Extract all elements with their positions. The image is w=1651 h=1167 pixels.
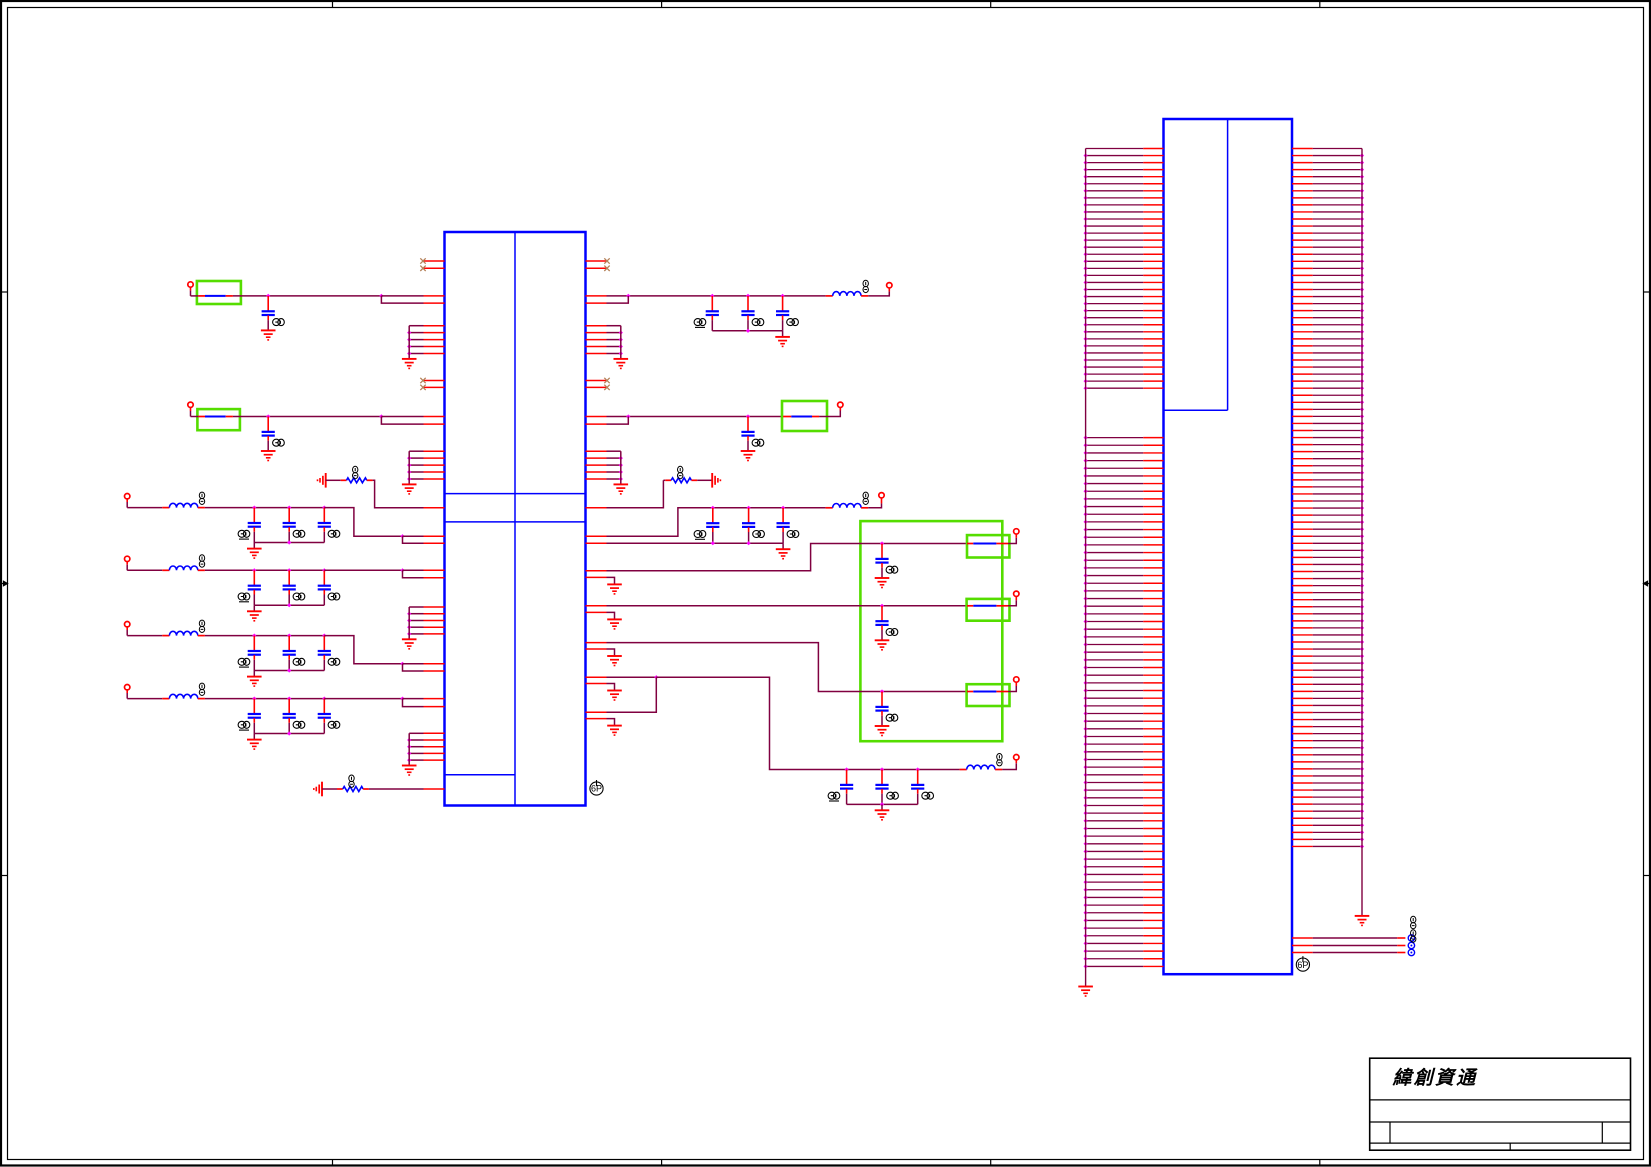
ground right pin bus <box>1355 916 1370 926</box>
connector J1 body <box>1164 119 1293 974</box>
capacitor C10 green row A <box>875 544 898 588</box>
svg-text:6P: 6P <box>1297 960 1308 970</box>
IC pin 712 right <box>586 711 607 713</box>
wire row y698.6 to caps <box>205 697 327 701</box>
connector J1 aux pins to test points <box>1292 938 1405 953</box>
capacitor bank row 507 right <box>694 508 799 559</box>
capacitor C11 green row B <box>875 606 898 650</box>
resistor R5 in green callout row B <box>967 599 1010 621</box>
IC pin gnd 612 right <box>586 612 622 629</box>
IC pin gnd 577 right <box>586 577 622 594</box>
wire green row A from IC <box>586 541 968 570</box>
wire row B to port <box>1008 597 1016 606</box>
wire row y698.6 to IC <box>324 697 423 707</box>
connector J1 left pins group 1 <box>1084 149 1164 391</box>
wire row y570.3 to IC <box>324 568 423 578</box>
resistor R6 in green callout row C <box>967 684 1010 706</box>
test point TP3 <box>1408 949 1414 955</box>
port P5 <box>887 283 892 288</box>
wire bottom right bus <box>845 767 960 771</box>
capacitor bank bottom right <box>828 770 933 820</box>
connector J1 right pins <box>1292 149 1364 849</box>
capacitor bank row y507.6 <box>238 508 340 558</box>
IC pins row y570.3 <box>424 570 445 577</box>
wire left pin bus <box>1085 149 1087 987</box>
wire bottom right row from IC <box>586 675 847 769</box>
wire row y635.6 to caps <box>205 634 327 638</box>
green function block callout <box>860 521 1002 741</box>
wire row2 left <box>191 414 424 424</box>
resistor R1 with AC ground <box>318 466 373 487</box>
wire R3 to IC pin <box>607 480 664 508</box>
port row y635.6 <box>125 622 130 636</box>
IC no-connect pins mid-left <box>420 378 444 390</box>
wire row 536 right <box>586 506 826 544</box>
svg-text:緯創資通: 緯創資通 <box>1392 1067 1479 1089</box>
connector J1 designator 6P <box>1296 956 1309 971</box>
inductor row y570.3 <box>127 555 205 571</box>
wire green row B from IC <box>586 604 968 608</box>
port P1 <box>188 282 193 296</box>
IC U1 body <box>445 232 586 806</box>
IC pin 789 left <box>424 788 445 790</box>
test point TP1 <box>1408 935 1414 941</box>
wire row A to port <box>1008 534 1016 543</box>
wire row y635.6 to IC <box>324 636 423 671</box>
IC ground pin group right B with ground <box>586 451 629 494</box>
ferrite bead FB1 in green callout <box>197 281 241 304</box>
capacitor C2 <box>261 417 284 461</box>
port P6 <box>838 402 843 410</box>
IC pin gnd 649 right <box>586 649 622 666</box>
port P7 <box>879 493 884 504</box>
resistor R3 with AC ground right <box>663 466 720 487</box>
IC ground pin group left C with ground <box>402 607 445 649</box>
IC no-connect pins top-left <box>420 258 444 271</box>
IC no-connect pins mid-right <box>586 378 610 390</box>
port P2 <box>188 402 193 416</box>
capacitor bank row y698.6 <box>238 699 340 750</box>
IC pin gnd 718 right <box>586 719 622 736</box>
inductor L5 row1 right <box>826 280 869 296</box>
inductor row y635.6 <box>127 620 205 635</box>
wire row2 right <box>586 414 784 424</box>
IC pins row y507.6 <box>424 536 445 543</box>
resistor R2 with AC ground (bottom) <box>314 775 369 796</box>
port P10 <box>1014 677 1019 682</box>
wire R2 to IC pin <box>369 788 424 790</box>
IC ground pin group left A with ground <box>402 326 445 369</box>
title block <box>1370 1058 1631 1150</box>
port P8 <box>1014 529 1019 534</box>
wire FB3 to port <box>819 408 840 417</box>
wire row y570.3 to caps <box>205 568 327 572</box>
IC pin 507 left <box>424 507 445 509</box>
connector J1 left pins group 2 <box>1084 436 1164 969</box>
capacitor C7 row2 right <box>741 417 764 461</box>
wire right pin bus <box>1361 149 1363 916</box>
test point TP2 <box>1408 942 1414 948</box>
wire row y507.6 to caps <box>205 506 327 510</box>
inductor L7 bottom right <box>960 754 1003 770</box>
capacitor bank row y570.3 <box>238 570 340 621</box>
port row y570.3 <box>125 556 130 570</box>
resistor R4 in green callout row A <box>967 535 1009 557</box>
IC pin 507 right <box>586 507 607 509</box>
wire row C to port <box>1008 683 1016 692</box>
IC pins row1 left <box>424 296 445 303</box>
IC pins row y635.6 <box>424 664 445 671</box>
wire to port P7 <box>868 503 881 507</box>
IC no-connect pins top-right <box>586 258 610 271</box>
IC ground pin group left B with ground <box>402 451 445 494</box>
inductor row y698.6 <box>127 683 205 698</box>
ferrite bead FB2 in green callout <box>197 409 240 430</box>
wire row1 right <box>586 294 826 303</box>
port row y507.6 <box>125 494 130 508</box>
wire row1 right to port <box>868 288 889 296</box>
wire bottom right to port <box>1002 760 1016 769</box>
test point labels <box>1411 916 1416 942</box>
inductor row y507.6 <box>127 492 205 508</box>
capacitor C1 <box>261 296 284 340</box>
capacitor bank row1 right <box>694 296 798 347</box>
port row y698.6 <box>125 685 130 699</box>
wire green row C from IC <box>586 643 968 694</box>
IC pins row2 left <box>424 417 445 425</box>
IC U1 designator 6P <box>590 780 603 795</box>
wire R1 to IC pin <box>373 480 424 508</box>
svg-text:6P: 6P <box>591 784 602 794</box>
company name text <box>1392 1067 1479 1089</box>
capacitor bank row y635.6 <box>238 636 340 687</box>
wire row1 left <box>191 294 424 303</box>
port P9 <box>1014 591 1019 596</box>
IC ground pin group right A with ground <box>586 326 629 369</box>
capacitor C12 green row C <box>875 692 898 736</box>
IC pins row y698.6 <box>424 699 445 707</box>
inductor L6 row 507 right <box>826 492 869 508</box>
IC pin gnd 683 right <box>586 684 622 701</box>
wire row y507.6 to IC <box>324 508 423 544</box>
ground left pin bus <box>1078 987 1093 997</box>
IC ground pin group left D with ground <box>402 733 445 775</box>
port P11 <box>1014 755 1019 760</box>
ferrite bead FB3 in green callout right <box>782 401 827 431</box>
